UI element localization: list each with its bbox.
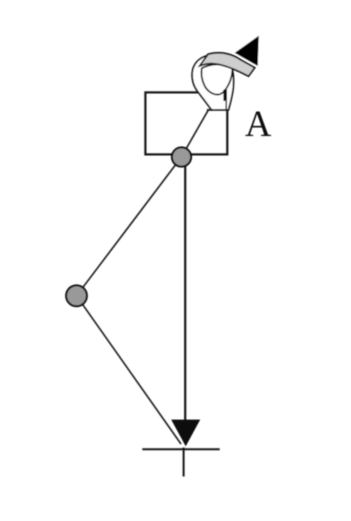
wire: vertical force line from pivot down bbox=[184, 157, 186, 421]
link: pivot to lower-left joint bbox=[77, 157, 182, 296]
wire: link from pivot up to rotation arrow root bbox=[181, 110, 208, 157]
rotation-arrow black arrowhead bbox=[235, 36, 259, 66]
rotation-arrow ribbon inner edge line bbox=[225, 100, 227, 110]
downward force arrowhead bbox=[171, 420, 200, 447]
pivot joint (upper, on rectangle) bbox=[172, 147, 191, 166]
rotation-arrow ribbon loop hole bbox=[201, 64, 232, 94]
wire: ribbon bottom edge left extension bbox=[207, 109, 213, 111]
joint (lower-left) bbox=[66, 285, 87, 306]
body rectangle (slider block) bbox=[145, 92, 227, 154]
link: lower-left joint to ground point bbox=[77, 296, 182, 444]
ground datum horizontal line bbox=[142, 448, 219, 450]
svg-text:A: A bbox=[245, 103, 272, 144]
rotation-arrow white ribbon loop outer body bbox=[192, 55, 233, 110]
rotation-arrow gray top band bbox=[200, 53, 255, 76]
rotation-arrow ribbon dark edge bar bbox=[223, 90, 227, 101]
ground datum vertical tick bbox=[183, 448, 185, 477]
